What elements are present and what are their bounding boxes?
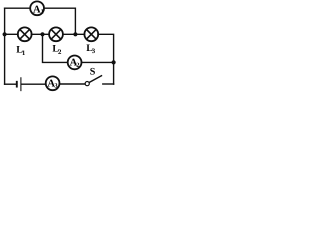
wire switch to bottom-right corner	[103, 83, 114, 85]
label L2	[52, 43, 62, 55]
switch S pivot contact	[85, 82, 89, 86]
wire L2 to node C	[63, 33, 85, 35]
label A2	[70, 58, 80, 69]
label A3	[47, 78, 58, 89]
svg-text:1: 1	[41, 9, 44, 16]
switch S blade	[89, 76, 101, 83]
svg-text:2: 2	[58, 49, 62, 56]
label L1	[16, 44, 26, 56]
wire battery to ammeter A3	[22, 83, 46, 85]
battery negative short plate	[16, 82, 18, 87]
ammeter A1	[30, 1, 44, 15]
svg-text:3: 3	[92, 48, 96, 55]
wire branch from node B down to middle row	[43, 34, 68, 62]
wire L3 to right rail down to bottom row	[98, 34, 114, 84]
svg-text:1: 1	[22, 50, 26, 57]
wire A3 to switch S	[59, 83, 85, 85]
wire A2 to right rail	[81, 61, 113, 63]
lamp L2	[49, 27, 63, 41]
wire top-left: left vertical rail	[4, 8, 6, 84]
svg-text:S: S	[90, 67, 96, 78]
lamp L1	[18, 27, 32, 41]
node D: junction right rail / A2 row	[112, 60, 116, 64]
ammeter A2	[68, 56, 82, 70]
node A: junction left rail / lamp row	[3, 32, 7, 36]
wire from A1 to top-right corner and down to lamp row	[44, 8, 75, 34]
wire top from corner to ammeter A1	[5, 7, 31, 9]
svg-text:2: 2	[76, 62, 79, 69]
label A1	[33, 5, 44, 16]
wire lamp row: left rail to L1	[5, 33, 18, 35]
ammeter A3	[46, 76, 60, 90]
wire L1 to node B	[31, 33, 49, 35]
wire bottom-left corner to battery	[5, 83, 16, 85]
battery positive long plate	[20, 78, 22, 91]
node C: junction between L2 and L3 (A1 branch)	[73, 32, 77, 36]
node B: junction between L1 and L2	[40, 32, 44, 36]
label L3	[86, 43, 96, 55]
lamp L3	[84, 27, 98, 41]
